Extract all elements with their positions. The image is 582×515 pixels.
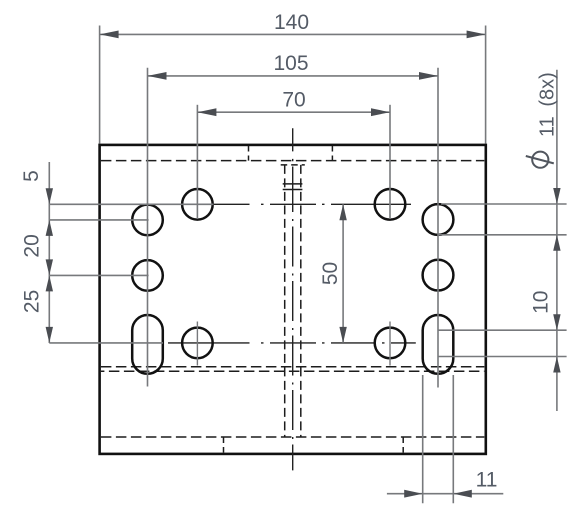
hidden connector bottom left: [223, 438, 225, 453]
center tick inner-right bottom hole: [389, 322, 391, 366]
arrow 25 top: [46, 275, 53, 291]
dimension 50 line: [342, 204, 344, 343]
center line row1: [214, 203, 412, 205]
right ext slot arc top: [438, 329, 567, 331]
extension line plate right top: [485, 26, 487, 144]
left ext outer top: [49, 219, 148, 221]
left ext row3: [49, 342, 163, 344]
hole C2 outer-left mid: [132, 260, 163, 291]
svg-text:11: 11: [476, 469, 498, 492]
svg-text:105: 105: [273, 52, 308, 75]
svg-text:11 (8x): 11 (8x): [537, 72, 559, 137]
arrow 10 top: [553, 314, 560, 330]
svg-text:10: 10: [530, 291, 553, 314]
arrow 11 right: [453, 490, 472, 498]
arrow 20 top: [46, 220, 53, 236]
hole C1 outer-left top: [132, 205, 163, 236]
right ext slot arc bottom: [438, 356, 567, 358]
dimension 70 line: [197, 111, 390, 113]
hole C4 inner-left bottom: [182, 328, 213, 359]
dimension 11 line: [387, 493, 503, 495]
slot left: [132, 315, 163, 374]
hidden edge line lower A: [101, 366, 484, 368]
hole C5 inner-right top: [375, 189, 406, 220]
hidden connector top right: [331, 146, 333, 161]
extension line plate left top: [99, 26, 101, 144]
hole C3 inner-left top: [182, 189, 213, 220]
center tick inner-left bottom hole: [196, 322, 198, 366]
label dia symbol: [526, 152, 554, 168]
dimension 105 line: [148, 75, 439, 77]
right dimension stack line: [556, 70, 558, 411]
left ext row1: [49, 203, 213, 205]
left ext outer mid: [49, 274, 148, 276]
hidden connector bottom right: [402, 438, 404, 453]
right ext tangent top: [441, 203, 567, 205]
center line row3: [168, 342, 416, 344]
hole C7 outer-right top: [423, 204, 454, 235]
arrow 25 bottom: [46, 327, 53, 343]
arrow 11 left: [404, 490, 423, 498]
arrow 70 right: [371, 108, 390, 116]
hidden edge line top: [101, 160, 484, 162]
hidden channel right edge: [300, 165, 302, 437]
plate outline: [100, 145, 486, 454]
arrow 20 bottom: [46, 259, 53, 275]
arrow dia bottom: [553, 235, 560, 251]
extension line col inner-left: [196, 105, 198, 219]
hidden feature tick upper: [283, 183, 303, 185]
arrow 140 right: [467, 31, 486, 39]
arrow 50 top: [339, 204, 346, 220]
svg-text:140: 140: [274, 11, 309, 34]
extension line col outer-right: [437, 68, 439, 388]
bottom ext slot right tangent: [452, 375, 454, 503]
svg-text:50: 50: [319, 262, 342, 285]
arrow 105 left: [148, 72, 167, 80]
hidden channel top edge: [281, 164, 305, 166]
hole C6 inner-right bottom: [375, 328, 406, 359]
arrow 105 right: [419, 72, 438, 80]
extension line col outer-left: [147, 68, 149, 387]
arrow 140 left: [100, 31, 119, 39]
arrow 70 left: [197, 108, 216, 116]
svg-text:25: 25: [21, 290, 44, 313]
svg-text:5: 5: [20, 170, 43, 182]
arrow 5 top: [46, 188, 53, 204]
slot right: [423, 315, 454, 374]
arrow dia top: [553, 188, 560, 204]
bottom ext slot left tangent: [422, 375, 424, 503]
hidden feature tick lower: [283, 189, 303, 191]
arrow 50 bottom: [339, 327, 346, 343]
hidden connector top left: [248, 146, 250, 161]
svg-text:20: 20: [21, 234, 44, 257]
hole C8 outer-right mid: [423, 260, 454, 291]
hidden edge line bottom: [101, 436, 484, 438]
dimension 140 line: [100, 33, 486, 35]
hidden channel left edge: [284, 165, 286, 437]
extension line col inner-right: [389, 105, 391, 219]
arrow 10 bottom: [553, 357, 560, 373]
hidden edge line lower B: [101, 370, 484, 372]
vertical center line: [292, 128, 294, 470]
right ext tangent bottom: [438, 234, 567, 236]
left dimension stack line: [48, 162, 50, 343]
svg-text:70: 70: [282, 89, 305, 112]
